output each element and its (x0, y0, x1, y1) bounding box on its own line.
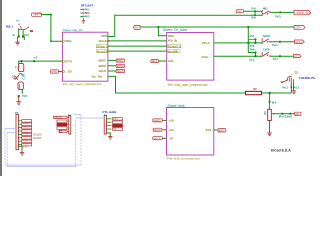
junction wiper wire b (289, 113, 291, 115)
level shifter Q-C bottom (262, 52, 271, 57)
connector J-mid label stack (54, 116, 68, 133)
svg-text:-PC2: -PC2 (205, 128, 212, 132)
svg-text:Pv2+: Pv2+ (272, 44, 278, 47)
wire conn-left bottom hook to ground (19, 146, 23, 152)
svg-text:KiCad E.D.A: KiCad E.D.A (271, 149, 291, 153)
svg-text:SCL: SCL (294, 54, 300, 58)
svg-text:SCmp_Q: SCmp_Q (97, 44, 110, 48)
wire MOSI label stub (108, 65, 116, 67)
svg-text:GP19: GP19 (22, 147, 28, 149)
svg-text:SCL3: SCL3 (295, 40, 302, 44)
global label MOSI (116, 64, 125, 68)
svg-text:CTL.Adds: CTL.Adds (102, 110, 116, 114)
svg-text:Pv.1: Pv.1 (273, 58, 278, 61)
svg-text:+1N: +1N (168, 119, 173, 123)
wire link bus corner to row4 (248, 53, 255, 57)
connector J-right body (104, 116, 111, 135)
svg-text:Pv1.1: Pv1.1 (282, 86, 289, 89)
svg-text:RTC.BAT: RTC.BAT (81, 3, 93, 7)
svg-text:SP.CE1: SP.CE1 (54, 117, 63, 119)
global label GND sheet-left pin3 (51, 70, 59, 74)
svg-text:5V: 5V (135, 25, 139, 29)
global label PWR_5V_PI row A right (294, 10, 311, 14)
ground battery chain (16, 97, 21, 105)
svg-text:File: eink_connector.sch: File: eink_connector.sch (167, 157, 200, 161)
svg-text:NC1: NC1 (152, 59, 158, 63)
wire link bus to row3 upper (248, 38, 255, 40)
sheet-left pin GND arrow (62, 70, 64, 72)
wire divider vertical (269, 93, 271, 109)
global label 3V3 row A (236, 9, 243, 13)
svg-text:BTT2: BTT2 (65, 59, 72, 63)
global label 5V mid (133, 25, 140, 29)
sheet-left pin VBat arrow (62, 40, 64, 42)
global label eink D1 (153, 118, 163, 122)
svg-text:GND: GND (51, 70, 57, 74)
svg-text:_NB2: _NB2 (261, 8, 269, 11)
svg-text:GP22: GP22 (22, 133, 28, 135)
junction row3 right (279, 41, 281, 43)
svg-text:__D2: __D2 (64, 70, 72, 74)
svg-text:P3: P3 (68, 113, 72, 117)
svg-text:MISO: MISO (99, 59, 107, 63)
pin dot jack 2 (22, 35, 24, 37)
wire GND label stub to sheet pin 3 (58, 71, 62, 73)
global label eink D2 (153, 128, 162, 132)
wire NC label stub to sheet-right pin 5 (158, 60, 166, 62)
wire R to transistor drain (262, 92, 291, 94)
ground under pot (267, 133, 271, 136)
wire GPIOB from sheet-right to shifter (214, 55, 262, 57)
wire conn-mid bottom hook to ground (106, 133, 110, 136)
junction bus GPIOA crossing (247, 42, 249, 44)
junction corner batt (50, 40, 52, 42)
wire bottom sheet pin stubs left (162, 119, 166, 121)
wire bottom sheet pin stub right (214, 129, 218, 131)
svg-text:GP27: GP27 (22, 130, 28, 132)
svg-text:MISO: MISO (117, 59, 124, 63)
svg-text:O.B.L: O.B.L (202, 55, 210, 59)
junction VBATT row (33, 60, 35, 62)
svg-text:Sheet: eInk: Sheet: eInk (168, 104, 185, 108)
GLOBAL LABELS (32, 9, 311, 140)
svg-text:4Ch.3n2: 4Ch.3n2 (99, 39, 110, 43)
global label SCL row4 (293, 54, 301, 58)
wire SCLK label stub (108, 70, 116, 72)
wire 3V3 label stub row A (244, 10, 263, 12)
wire battery chain hook (21, 90, 23, 94)
pin dot transistor s (293, 86, 295, 88)
junction row4 right (279, 55, 281, 57)
SHEET PIN TEXTS (62, 34, 211, 141)
junction corner batt top (50, 14, 52, 16)
junction wiper wire a (281, 113, 283, 115)
wire touch-int from sheet-left down and across (108, 76, 245, 93)
wire transistor drain vertical (290, 83, 292, 94)
wire row4 right segment to label (271, 55, 294, 57)
svg-text:CS: CS (113, 129, 117, 131)
global label NC sheet-right (151, 59, 158, 63)
svg-text:+C2: +C2 (168, 128, 174, 132)
wire link row A to row B (254, 11, 256, 15)
junction SDA branch (157, 26, 159, 28)
connector J-right label stack (113, 118, 123, 131)
wire jack pin stubs (18, 30, 20, 37)
svg-text:MISO: MISO (154, 118, 161, 122)
connector J-left label stack (22, 120, 42, 149)
svg-text:VBat: VBat (65, 39, 71, 43)
svg-text:CuTB: CuTB (263, 48, 270, 51)
ground under transistor (292, 90, 297, 94)
junction row A right (279, 11, 281, 13)
junction row B (254, 14, 256, 16)
diode D1 glyph (13, 73, 22, 80)
potentiometer wiper arrow (272, 113, 274, 115)
wire RTC battery pin stubs (80, 8, 83, 10)
svg-text:C.VB: C.VB (23, 73, 26, 79)
svg-text:MOSI: MOSI (154, 128, 161, 132)
ground RTC (82, 18, 85, 23)
svg-text:GP05: GP05 (22, 137, 28, 139)
junction SDA bus (247, 26, 249, 28)
svg-text:3V3: 3V3 (237, 9, 242, 13)
svg-text:SDA: SDA (168, 34, 174, 38)
CONNECTORS (16, 114, 123, 149)
svg-text:Pv7: Pv7 (250, 35, 255, 38)
wire GPIOA from sheet-right to shifter (214, 42, 262, 44)
svg-text:File: chip_addr_jumpers.sch: File: chip_addr_jumpers.sch (168, 83, 208, 87)
svg-text:MOSI: MOSI (117, 64, 124, 68)
svg-text:GPIO: GPIO (101, 34, 109, 38)
sheet-left pin R3 name (96, 45, 108, 48)
junction divider top (268, 92, 270, 94)
wire sheet-left pin R1 up and across top (108, 15, 262, 36)
fuse F1 body (20, 61, 22, 64)
BUS LINES (5, 115, 104, 167)
ground under jack (15, 37, 20, 45)
PIN DOTS (18, 35, 295, 97)
svg-text:Sheet: Ch_Addr: Sheet: Ch_Addr (163, 28, 188, 32)
global label SCLK (116, 69, 125, 73)
SHEET_LEFT (62, 28, 108, 86)
sheet-left pin R4 name (97, 50, 109, 53)
wire SDA branch down to sheet-right pin 1 (158, 27, 166, 36)
polyfuse body 2 (18, 82, 23, 90)
svg-text:P2: P2 (15, 111, 19, 115)
wire MISO label stub (108, 59, 116, 61)
svg-text:Pv2+: Pv2+ (250, 48, 256, 51)
window edge line (0, 0, 2, 176)
junction row4 lower (254, 55, 256, 57)
global label +BATT top-left (32, 13, 42, 17)
pin dot jack 1 (18, 35, 20, 37)
svg-text:SCLK: SCLK (117, 69, 124, 73)
hierarchical sheet U-left body (62, 32, 108, 81)
wire pot bottom to ground (269, 121, 271, 133)
SHEET_BOTTOM (167, 104, 214, 161)
svg-text:>PWR_5V: >PWR_5V (295, 11, 309, 15)
bus line P1 verticals (4, 128, 6, 165)
junction row3 upper (254, 38, 256, 40)
svg-text:Pv1.5: Pv1.5 (293, 86, 300, 89)
SHEET_RIGHT (163, 28, 214, 87)
svg-text:BSY: BSY (219, 129, 225, 133)
svg-text:MA.1: MA.1 (6, 25, 13, 29)
wire sheet-left pin R2 to sheet-right (108, 40, 167, 42)
level shifter Q-A top (262, 11, 271, 16)
wire row A right segment to power label (271, 11, 295, 13)
bus line P2 horizontals (7, 131, 15, 133)
svg-text:(Pv.V2.BlaA: (Pv.V2.BlaA (279, 116, 293, 119)
svg-text:Pv.5: Pv.5 (250, 59, 255, 62)
global label SDA_3V row3 (295, 40, 305, 44)
pin dot transistor d (290, 86, 292, 88)
global label eink right (218, 129, 226, 133)
svg-text:GCLK1: GCLK1 (33, 136, 42, 140)
transistor Q2 (281, 75, 294, 83)
svg-text:SCLK: SCLK (99, 69, 107, 73)
hierarchical sheet U-bottom body (167, 108, 214, 156)
svg-text:PU1: PU1 (85, 8, 90, 11)
svg-text:SCmp3_Q: SCmp3_Q (168, 44, 182, 48)
junction row A left (254, 10, 256, 12)
junction fuse pin (20, 60, 22, 62)
svg-text:Pv2: Pv2 (24, 34, 29, 37)
wire +BATT label to corner (42, 15, 63, 42)
resistor R horizontal (246, 91, 262, 94)
ground under conn-mid-right (108, 137, 112, 140)
wire sheet-left pin R3 to sheet-right (108, 45, 167, 47)
svg-text:4Ch.3b: 4Ch.3b (168, 39, 178, 43)
battery chain pin stub red (18, 84, 20, 89)
svg-text:GP17: GP17 (22, 126, 28, 128)
svg-text:PU3: PU3 (85, 16, 90, 19)
svg-text:+BATT: +BATT (33, 13, 42, 17)
svg-text:Icrsn.LB: Icrsn.LB (97, 49, 108, 53)
wire sheet-left pin R4 to sheet-right (108, 50, 167, 52)
sheet-left pin VBATT arrow (62, 60, 64, 62)
svg-text:Pvb: Pvb (252, 17, 257, 20)
svg-text:SDA: SDA (295, 25, 301, 29)
svg-text:Pv21: Pv21 (275, 16, 281, 19)
wire bus vertical right column (247, 27, 249, 53)
svg-text:GND: GND (58, 131, 63, 133)
wire pot wiper to label (272, 113, 294, 115)
svg-text:RST: RST (113, 119, 118, 121)
svg-text:SpDt2: SpDt2 (263, 35, 271, 38)
pin dot battery chain (18, 95, 20, 97)
svg-text:GP06: GP06 (22, 140, 28, 142)
sheet-right pin4 name (168, 50, 180, 53)
svg-text:-1P: -1P (168, 137, 172, 141)
junction row4 upper (254, 51, 256, 53)
junction ADC tap (269, 101, 271, 103)
svg-text:W.A: W.A (272, 101, 277, 104)
svg-text:Tas_Tse: Tas_Tse (91, 75, 102, 79)
hierarchical sheet U-right body (167, 33, 214, 81)
potentiometer RV body (268, 109, 272, 120)
svg-text:AD: AD (295, 112, 299, 116)
level shifter Q-B mid (262, 39, 271, 44)
svg-text:P4: P4 (104, 114, 108, 118)
global label MISO (116, 59, 125, 63)
svg-text:PV2: PV2 (22, 95, 27, 98)
svg-text:Pv3: Pv3 (252, 8, 257, 11)
svg-text:GP13: GP13 (22, 143, 28, 145)
RTC battery holder (83, 8, 85, 18)
svg-text:File: cap_touch_expander.sch: File: cap_touch_expander.sch (63, 82, 102, 86)
svg-text:+v2: +v2 (33, 57, 38, 60)
bus line P2 verticals (6, 132, 8, 166)
svg-text:GP04: GP04 (22, 123, 28, 125)
svg-text:GPI.A: GPI.A (202, 41, 210, 45)
svg-text:Sheet: cap_tch: Sheet: cap_tch (63, 28, 83, 32)
svg-text:a1%: a1% (168, 59, 174, 63)
power jack MA1 (18, 24, 33, 32)
SMALL TEXTS (6, 3, 316, 152)
global label eink D3 (153, 136, 163, 140)
wire link row3 upper-lower (254, 39, 256, 43)
wire SDA row from label across (140, 26, 294, 28)
global label SDA row2 (294, 25, 305, 29)
svg-text:Icrs63B: Icrs63B (168, 49, 178, 53)
bus line P1 horizontals (5, 127, 15, 129)
svg-text:T.AR.RNL.PG.: T.AR.RNL.PG. (299, 76, 316, 80)
sheet-right pin3 name (168, 45, 181, 48)
svg-text:SCLK: SCLK (154, 136, 161, 140)
connector J-left body (16, 114, 22, 149)
global label ADC divider (295, 112, 302, 116)
wire row3 right segment to label (271, 41, 295, 43)
connector J-mid body (67, 115, 71, 134)
junction row3 lower (254, 42, 256, 44)
ground under conn-left (20, 153, 24, 156)
svg-text:MOSI: MOSI (99, 64, 106, 68)
svg-text:GCLK0: GCLK0 (33, 132, 42, 136)
wire VBATT row to sheet pin 2 (19, 61, 63, 64)
wire transistor source vertical (293, 83, 295, 90)
